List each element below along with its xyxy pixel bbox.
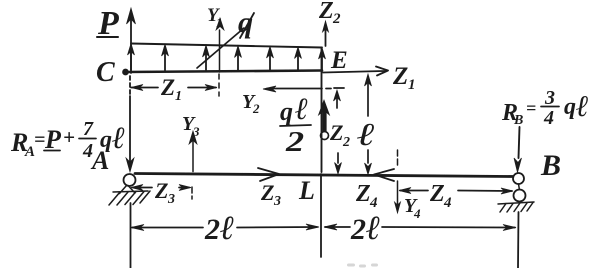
coordinate Z2 tick [326, 88, 331, 90]
force P arrow [130, 13, 132, 73]
svg-text:E: E [330, 47, 348, 74]
node C dot [123, 69, 129, 75]
svg-text:Z: Z [329, 120, 343, 145]
svg-text:ℓ: ℓ [112, 120, 125, 155]
reaction RB arrow [519, 127, 520, 158]
svg-text:1: 1 [408, 77, 416, 93]
coordinate Z2 down arrow [337, 153, 339, 163]
underline of P [97, 36, 118, 38]
svg-text:7: 7 [83, 118, 94, 140]
svg-text:2: 2 [285, 126, 304, 158]
svg-text:L: L [298, 176, 315, 205]
diagonal stroke through Y1 [197, 28, 244, 68]
svg-text:4: 4 [443, 195, 452, 211]
load arrow 6 [297, 52, 299, 70]
dimension Z3 [133, 187, 152, 189]
load arrow 2 [164, 49, 166, 70]
load arrow 1 [130, 48, 132, 70]
roller support B circles [513, 173, 524, 184]
svg-text:4: 4 [543, 107, 554, 129]
beam CE [125, 71, 322, 73]
svg-text:2: 2 [332, 11, 341, 27]
load arrow 3 [205, 50, 207, 70]
force ql/2 arrow [322, 110, 326, 131]
axis Z3 arrowhead on beam [258, 168, 279, 181]
svg-text:Z: Z [318, 0, 334, 24]
svg-text:Z: Z [260, 180, 274, 205]
roller support B hatching [498, 202, 534, 212]
svg-text:ℓ: ℓ [357, 117, 375, 152]
svg-text:2: 2 [252, 101, 260, 116]
dimension 2l right [325, 226, 350, 228]
svg-text:ℓ: ℓ [366, 210, 381, 247]
svg-text:ℓ: ℓ [220, 210, 235, 247]
pin support A circle [124, 174, 136, 186]
extension line below B [517, 212, 520, 268]
reaction RA line [129, 76, 131, 96]
load arrow 5 [269, 51, 271, 70]
svg-text:4: 4 [369, 195, 378, 211]
svg-text:Z: Z [154, 178, 168, 203]
force ql/2 base circle [321, 132, 329, 140]
svg-text:q: q [564, 94, 576, 120]
svg-text:B: B [540, 149, 561, 182]
svg-text:Z: Z [355, 181, 371, 207]
svg-text:2: 2 [342, 135, 350, 150]
dimension Y2 [267, 88, 322, 90]
pin support A hatching [113, 191, 148, 192]
svg-text:A: A [90, 146, 109, 175]
svg-text:=: = [34, 129, 45, 151]
svg-text:=: = [526, 98, 536, 118]
svg-text:1: 1 [175, 89, 182, 104]
svg-text:4: 4 [413, 206, 421, 221]
vertical bar EL and extension [321, 48, 323, 172]
section line Y4 [397, 150, 399, 168]
dimension l (ell) [367, 78, 369, 116]
svg-text:2: 2 [350, 213, 366, 246]
dimension Z1 [131, 87, 158, 89]
svg-text:3: 3 [273, 194, 281, 209]
load arrow 7 [321, 52, 323, 70]
svg-text:q: q [238, 6, 253, 39]
section line Y1 [219, 30, 221, 72]
svg-text:ℓ: ℓ [295, 91, 308, 126]
svg-text:Z: Z [392, 63, 408, 90]
axis Z4 arrowhead on beam [374, 169, 394, 181]
svg-text:Z: Z [160, 75, 175, 100]
svg-text:ℓ: ℓ [576, 90, 589, 123]
faint smudge bottom [347, 264, 378, 268]
dimension Z4 [400, 190, 428, 192]
svg-text:+: + [63, 125, 75, 149]
load arrow 4 [237, 51, 239, 70]
axis Z2 arrow [325, 26, 327, 46]
extension line below A [130, 203, 132, 268]
axis Z1 [323, 71, 385, 73]
beam AB [135, 174, 514, 177]
svg-text:B: B [513, 113, 523, 128]
svg-text:3: 3 [167, 192, 175, 207]
svg-text:Z: Z [429, 181, 445, 207]
svg-text:C: C [96, 57, 115, 88]
svg-text:2: 2 [204, 213, 220, 246]
dimension 2l left [132, 227, 203, 229]
svg-text:q: q [280, 97, 293, 126]
distributed load top line [131, 44, 322, 48]
